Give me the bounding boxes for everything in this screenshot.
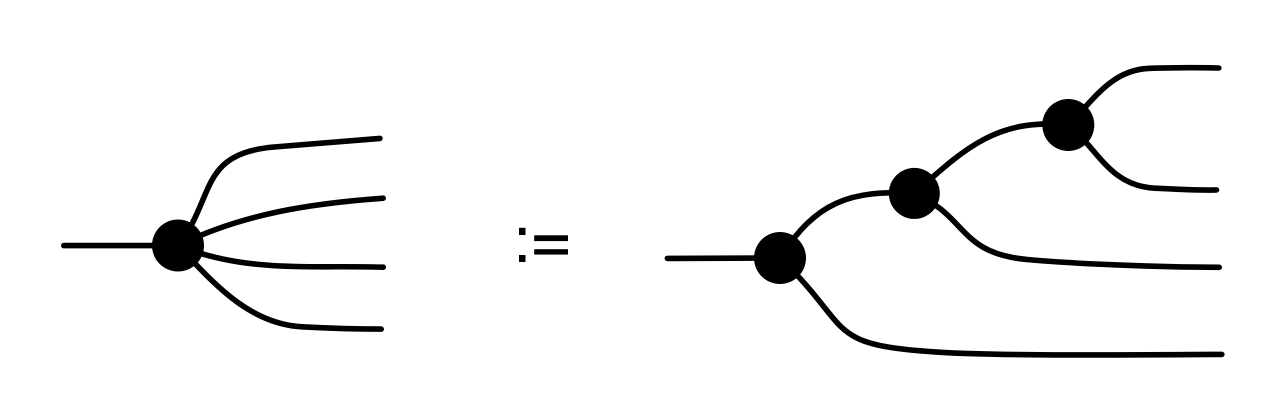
symbol: := colon top dot: [519, 228, 526, 235]
wire: left spider output 3: [178, 246, 383, 268]
wire: node B lower output: [914, 193, 1219, 267]
symbol: := equals bottom bar: [534, 249, 568, 254]
symbol: := equals top bar: [534, 235, 568, 241]
wire: node C lower output: [1068, 125, 1216, 190]
wire: node A to node B (upper branch): [780, 193, 914, 258]
wire: left spider output 2: [178, 198, 383, 245]
node B: right tree second dot: [889, 168, 940, 219]
wire: right tree input: [667, 255, 780, 261]
node C: right tree third dot: [1042, 99, 1094, 151]
wire: left spider input: [64, 243, 178, 249]
wire: left spider output 4 (bottom): [178, 246, 381, 330]
wire: node C upper output: [1068, 68, 1219, 125]
node: left spider dot: [152, 220, 204, 272]
wire: node A bottom output: [780, 258, 1222, 355]
wire: node B to node C (upper branch): [914, 124, 1068, 193]
wire: left spider output 1 (top): [178, 138, 380, 245]
symbol: := colon bottom dot: [519, 255, 526, 262]
node A: right tree first dot: [754, 232, 806, 284]
